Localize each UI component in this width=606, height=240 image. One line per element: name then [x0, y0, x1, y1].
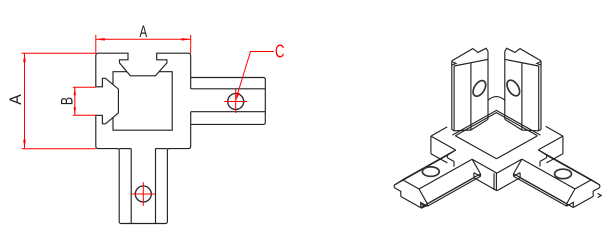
right arm chamfer end edge B	[567, 189, 575, 204]
left arm step end edge A	[394, 188, 401, 197]
left arm flange end edge B	[426, 204, 428, 207]
base top face back-right edge	[546, 126, 563, 136]
left arm end serration wedge	[421, 204, 425, 208]
body right edge across arm root upper	[190, 78, 192, 89]
body right edge across arm root lower	[190, 112, 192, 125]
left arm top face outer edge	[403, 150, 456, 180]
left arm neck bottom edge inner	[421, 178, 474, 208]
left arm hole	[422, 167, 439, 176]
left slab hole	[473, 81, 486, 97]
right arm neck root vert B	[519, 173, 521, 178]
right arm end serration wedge	[598, 193, 602, 197]
dimension A left arrows	[23, 53, 26, 62]
arm groove line upper	[191, 88, 266, 90]
leg hole crosshair	[131, 182, 155, 206]
right arm chamfer root edge B	[514, 159, 522, 174]
right arm neck root vert A	[539, 161, 541, 166]
bore back edge chamfer (V upper)	[452, 110, 540, 135]
left arm chamfer end edge A	[394, 180, 402, 185]
right arm flange top edge outer	[547, 155, 600, 185]
left arm top face end edge	[403, 180, 419, 189]
dimension B line	[74, 87, 76, 115]
left slab vertical edge v1b	[453, 66, 455, 131]
right arm top face end edge	[575, 180, 591, 189]
left arm step end edge B	[421, 203, 428, 208]
leg groove line left	[130, 149, 132, 224]
bore front-left edge	[455, 136, 496, 159]
left slab top ridge	[452, 48, 488, 61]
dimension B extension lines	[73, 87, 96, 115]
leader C arrowhead	[236, 92, 240, 101]
base left corner vertical edge	[430, 136, 432, 154]
base top face front-left edge	[431, 136, 456, 150]
right arm flange root edge B	[513, 174, 515, 177]
right arm step root edge B	[514, 173, 521, 177]
dimension A top arrows	[96, 38, 105, 41]
left slab vertical edge v3	[487, 51, 489, 119]
right slab end serration wedge	[537, 62, 541, 66]
left slab end serration wedge	[452, 62, 456, 66]
svg-text:A: A	[139, 23, 147, 42]
right slab bottom edges	[505, 119, 541, 131]
base top face front-left edge part2	[472, 159, 497, 173]
inner square bore	[113, 72, 172, 131]
left arm top face inner edge	[419, 159, 472, 189]
left arm flange end edge A	[393, 185, 395, 188]
left arm step root edge B	[474, 173, 481, 177]
dimension A left extension lines	[22, 53, 96, 148]
plate bottom front-right edge outer	[546, 154, 563, 163]
left arm neck root vert B	[473, 173, 475, 178]
right arm top face inner edge	[522, 159, 575, 189]
right slab vertical edge v1b	[538, 66, 540, 131]
right arm neck bottom edge inner	[520, 178, 573, 208]
left slab vertical edge v1a	[451, 61, 453, 130]
hole C crosshair	[224, 90, 247, 114]
base top face front-right edge	[538, 136, 563, 150]
body outline with slots	[96, 53, 265, 223]
right arm hole	[555, 169, 572, 178]
left arm flange top edge inner	[427, 174, 480, 204]
right slab hole	[507, 80, 520, 96]
right arm top face outer edge	[538, 150, 591, 180]
left arm flange top edge outer	[394, 155, 447, 185]
left arm step root edge A	[447, 158, 454, 162]
right slab top inner edge	[504, 59, 538, 66]
right arm chamfer root edge A	[538, 150, 546, 155]
bore back edges (V lower)	[455, 113, 537, 136]
left arm flange root edge B	[480, 174, 482, 177]
left arm chamfer root edge A	[447, 150, 455, 155]
hole C circle	[228, 94, 244, 110]
left arm bottom end edge	[401, 197, 421, 208]
right arm flange end edge B	[566, 204, 568, 207]
right arm bottom end edge	[573, 196, 593, 207]
bore front-right edge	[497, 136, 538, 159]
right slab top ridge	[505, 48, 541, 61]
right arm flange end edge A	[599, 185, 601, 188]
right slab vertical edge v3	[504, 51, 506, 119]
left arm chamfer end edge B	[419, 189, 427, 204]
base front corner vertical edge (fillet second line)	[493, 173, 495, 190]
leader line C	[237, 52, 273, 95]
left arm neck root vert A	[453, 162, 455, 167]
right arm step root edge A	[540, 158, 547, 162]
left arm flange bottom edge inner	[427, 176, 480, 206]
dimension A top extension lines	[96, 35, 191, 53]
left slab vertical edge v2	[470, 63, 472, 130]
right arm flange top edge inner	[514, 174, 567, 204]
arm groove line lower	[191, 111, 266, 113]
left arm chamfer root edge B	[472, 159, 480, 174]
base top face back-left edge	[431, 127, 447, 136]
right slab vertical edge v2	[521, 63, 523, 130]
right arm step end edge B	[567, 202, 574, 207]
plate bottom front-left edge inner	[474, 178, 497, 191]
dimension A left line	[24, 53, 26, 148]
dimension A top line	[96, 38, 191, 40]
body bottom edge across leg root left	[119, 148, 131, 150]
svg-text:B: B	[59, 97, 77, 105]
leg hole circle	[135, 186, 151, 202]
base right corner vertical edge	[562, 136, 564, 154]
right arm chamfer end edge A	[591, 180, 599, 185]
base top face front-right edge part2	[497, 159, 522, 173]
right arm flange root edge A	[546, 155, 548, 158]
dimension B arrows	[74, 87, 76, 95]
body bottom edge across leg root right	[156, 148, 168, 150]
right arm step end edge A	[593, 188, 600, 197]
left slab top inner edge	[454, 59, 488, 66]
leg groove line right	[155, 149, 157, 224]
svg-text:C: C	[275, 41, 284, 62]
plate bottom front-left edge outer	[431, 154, 448, 163]
plate bottom front-right edge inner	[497, 178, 520, 191]
right arm flange bottom edge inner	[514, 176, 567, 206]
left slab bottom edges	[452, 119, 488, 131]
base front corner vertical edge	[495, 173, 497, 191]
left arm flange root edge A	[446, 155, 448, 158]
center fillet arc between slabs	[488, 97, 505, 101]
right slab vertical edge v1a	[540, 61, 542, 130]
svg-text:A: A	[7, 94, 26, 105]
